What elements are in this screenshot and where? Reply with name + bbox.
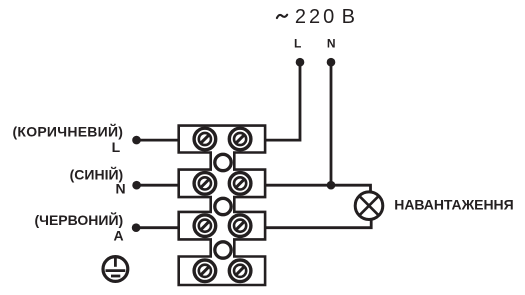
svg-text:L: L (294, 37, 301, 51)
lamp load EL1 (355, 192, 383, 220)
wire terminal row 2 to lamp top (263, 185, 371, 193)
svg-text:L: L (112, 139, 121, 155)
node brown lead dot (132, 136, 141, 145)
node L supply dot (296, 58, 305, 67)
svg-text:В: В (342, 6, 355, 28)
screw row4 left (194, 260, 216, 282)
ground protective earth symbol (103, 257, 128, 282)
screw row1 right (229, 128, 251, 150)
screw row2 right (229, 173, 251, 195)
label ~ 220 V supply (277, 6, 355, 28)
screw row2 left (194, 173, 216, 195)
wire blue lead row 2 (137, 184, 181, 187)
wire N vertical (330, 62, 333, 185)
terminal block X1 outline (179, 126, 265, 285)
wire L vertical to terminal row 1 (263, 62, 300, 140)
node red lead dot (132, 223, 141, 232)
hole between rows 1-2 (215, 154, 231, 170)
svg-text:А: А (113, 228, 123, 244)
screw row3 left (194, 215, 216, 237)
svg-text:НАВАНТАЖЕННЯ: НАВАНТАЖЕННЯ (394, 196, 513, 212)
screw row3 right (229, 215, 251, 237)
svg-text:N: N (115, 181, 125, 197)
svg-text:220: 220 (295, 6, 337, 28)
node blue lead dot (132, 181, 141, 190)
screw row4 right (229, 260, 251, 282)
svg-text:N: N (327, 37, 336, 51)
wire lamp bottom to terminal row 3 (263, 219, 371, 228)
svg-text:(КОРИЧНЕВИЙ): (КОРИЧНЕВИЙ) (13, 123, 124, 140)
node N supply dot (327, 58, 336, 67)
svg-text:(ЧЕРВОНИЙ): (ЧЕРВОНИЙ) (34, 211, 123, 228)
wire brown lead row 1 (137, 139, 182, 142)
hole between rows 3-4 (215, 242, 231, 258)
screw row1 left (194, 128, 216, 150)
junction N and lamp (327, 181, 336, 190)
wire red lead row 3 (136, 226, 181, 229)
hole between rows 2-3 (215, 198, 231, 214)
